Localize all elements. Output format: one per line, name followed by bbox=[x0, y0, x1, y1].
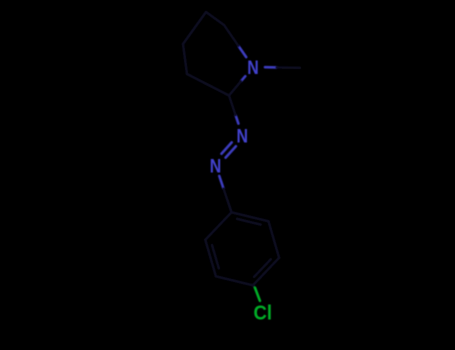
bond C4'-Cl (green half) bbox=[255, 288, 260, 301]
svg-text:N: N bbox=[247, 58, 259, 79]
benzene bond C5'-C6' bbox=[205, 240, 216, 276]
bond C2-N(azo) (heteroatom half) bbox=[236, 115, 239, 123]
bond N1-C7a (carbon half) bbox=[224, 25, 239, 46]
bond N(azo)-C1' (carbon half) bbox=[224, 189, 232, 213]
benzene inner double line C5'=C6' bbox=[212, 245, 219, 268]
bond N1-CH3 methyl (carbon half) bbox=[277, 66, 301, 69]
azo N=N double bond line bbox=[222, 142, 232, 153]
azo N=N double bond line bbox=[226, 146, 236, 157]
bond C4'-Cl (carbon half) bbox=[253, 285, 255, 288]
benzene inner double line C1'=C2' bbox=[237, 219, 261, 225]
bond C7-C6 bbox=[183, 12, 206, 44]
benzene inner double line C3'=C4' bbox=[254, 259, 271, 277]
bond C5-C2 bbox=[187, 74, 229, 96]
bond C2-N(azo) (carbon half) bbox=[229, 96, 236, 116]
benzene bond C1'-C2' bbox=[232, 212, 269, 221]
svg-text:N: N bbox=[210, 156, 222, 177]
benzene bond C2'-C3' bbox=[269, 221, 280, 257]
benzene bond C4'-C5' bbox=[216, 276, 253, 285]
bond N1-C7a (heteroatom half) bbox=[239, 46, 247, 57]
bond N1-CH3 methyl (heteroatom half) bbox=[265, 66, 277, 69]
bond N1-C2 (carbon half) bbox=[229, 81, 241, 95]
bond N1-C2 (heteroatom half) bbox=[241, 76, 245, 81]
bond C7a-C7 bbox=[206, 12, 224, 25]
bond N(azo)-C1' (heteroatom half) bbox=[219, 176, 223, 189]
benzene bond C6'-C1' bbox=[205, 212, 231, 240]
bond C6-C5 bbox=[183, 44, 187, 74]
svg-text:Cl: Cl bbox=[254, 302, 273, 325]
svg-text:N: N bbox=[236, 127, 248, 148]
benzene bond C3'-C4' bbox=[253, 258, 279, 286]
